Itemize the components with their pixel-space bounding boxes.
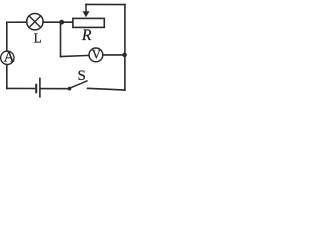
svg-text:R: R xyxy=(81,27,92,44)
lamp X stroke 2 xyxy=(29,16,41,28)
wire lamp to rheostat xyxy=(43,21,72,23)
wire left vertical lower xyxy=(6,65,8,89)
junction node dot between L and R xyxy=(59,20,64,25)
wire left vertical upper xyxy=(6,22,8,51)
wire voltmeter to right wire xyxy=(103,54,125,56)
svg-text:V: V xyxy=(92,47,102,61)
voltmeter V circle xyxy=(89,48,103,62)
rheostat wiper stem xyxy=(85,4,87,12)
wire switch to bottom-right corner xyxy=(88,88,125,90)
rheostat R body xyxy=(73,18,104,27)
battery negative plate (short thick) xyxy=(35,85,37,93)
lamp X stroke 1 xyxy=(29,16,41,28)
svg-text:S: S xyxy=(78,68,86,84)
switch S lever xyxy=(70,81,87,88)
wire wiper to top-right corner xyxy=(86,3,125,5)
wire bottom-left to battery xyxy=(7,87,35,89)
rheostat wiper arrowhead xyxy=(83,11,90,17)
battery positive plate (long) xyxy=(39,78,41,96)
lamp L1 circle xyxy=(27,14,43,30)
ammeter A circle xyxy=(1,51,14,64)
junction node dot on right wire xyxy=(122,53,127,58)
svg-text:A: A xyxy=(4,49,15,65)
wire voltmeter branch left horizontal xyxy=(61,55,90,56)
wire voltmeter branch vertical from node xyxy=(60,22,62,56)
switch pivot dot xyxy=(68,87,72,91)
svg-text:L: L xyxy=(34,31,42,46)
wire battery to switch xyxy=(41,88,68,90)
wire top-left horizontal xyxy=(7,21,27,23)
wire right vertical xyxy=(124,5,126,90)
